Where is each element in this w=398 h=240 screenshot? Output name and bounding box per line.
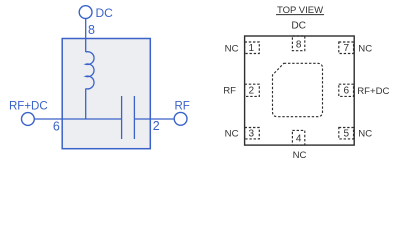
svg-text:NC: NC bbox=[225, 44, 239, 55]
svg-text:5: 5 bbox=[344, 128, 350, 139]
svg-text:DC: DC bbox=[291, 21, 306, 32]
svg-text:RF: RF bbox=[223, 86, 236, 97]
svg-text:8: 8 bbox=[88, 23, 95, 37]
svg-text:NC: NC bbox=[358, 44, 372, 55]
svg-text:7: 7 bbox=[344, 43, 350, 54]
svg-text:NC: NC bbox=[358, 128, 372, 139]
svg-text:TOP VIEW: TOP VIEW bbox=[277, 5, 323, 16]
svg-text:RF: RF bbox=[175, 101, 190, 113]
svg-text:RF+DC: RF+DC bbox=[9, 101, 48, 113]
svg-text:2: 2 bbox=[153, 119, 160, 133]
svg-text:8: 8 bbox=[296, 40, 302, 51]
svg-text:3: 3 bbox=[249, 128, 255, 139]
svg-text:NC: NC bbox=[225, 128, 239, 139]
svg-text:2: 2 bbox=[249, 86, 255, 97]
svg-text:RF+DC: RF+DC bbox=[357, 86, 389, 97]
svg-text:NC: NC bbox=[293, 150, 307, 161]
svg-text:4: 4 bbox=[296, 134, 302, 145]
svg-text:6: 6 bbox=[53, 119, 60, 133]
svg-text:1: 1 bbox=[249, 43, 255, 54]
svg-text:DC: DC bbox=[96, 6, 114, 20]
svg-text:6: 6 bbox=[344, 86, 350, 97]
